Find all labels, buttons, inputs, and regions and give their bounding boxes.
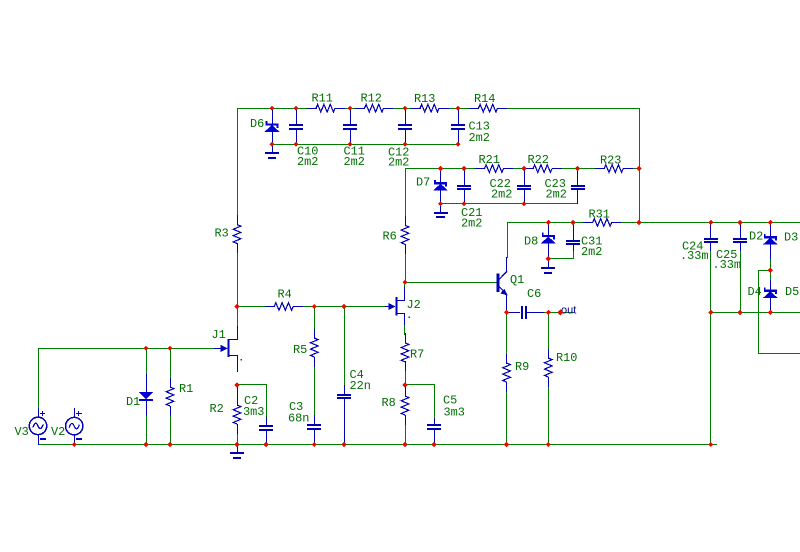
junction: [546, 310, 551, 315]
junction: [143, 442, 148, 447]
svg-text:C6: C6: [527, 287, 541, 301]
svg-text:R5: R5: [293, 343, 307, 357]
ground: [237, 444, 238, 453]
svg-text:D1: D1: [126, 395, 140, 409]
wire: [405, 282, 497, 283]
junction: [570, 220, 575, 225]
svg-text:D7: D7: [416, 176, 430, 190]
resistor R4: [265, 306, 275, 307]
junction: [269, 106, 274, 111]
svg-text:R2: R2: [210, 402, 224, 416]
wire: [507, 222, 508, 258]
wire: [38, 444, 717, 445]
junction: [143, 346, 148, 351]
capacitor C11: [350, 108, 351, 125]
wire: [758, 270, 759, 354]
junction: [402, 442, 407, 447]
junction: [269, 142, 274, 147]
junction: [636, 166, 641, 171]
resistor R9: [506, 354, 507, 364]
junction: [546, 256, 551, 261]
voltage source V3: [29, 417, 46, 434]
junction: [402, 382, 407, 387]
capacitor C21: [464, 168, 465, 185]
diode D8 (zener): [548, 222, 549, 236]
resistor R7: [405, 333, 406, 343]
junction: [167, 442, 172, 447]
junction: [347, 106, 352, 111]
resistor R5: [314, 329, 315, 339]
transistor Q1 (NPN): [497, 274, 500, 293]
junction: [431, 442, 436, 447]
diode D2 (zener): [770, 222, 771, 237]
wire: [639, 108, 640, 223]
wire: [506, 391, 507, 445]
wire: [710, 250, 711, 445]
wire: [314, 432, 315, 445]
wire: [405, 384, 435, 385]
svg-text:R10: R10: [556, 351, 577, 365]
wire: [506, 303, 507, 354]
wire: [405, 168, 406, 226]
wire: [314, 306, 315, 329]
wire: [405, 168, 476, 169]
capacitor C3: [314, 415, 315, 425]
wire: [710, 312, 800, 313]
svg-text:2m2: 2m2: [491, 188, 512, 202]
wire: [543, 312, 574, 313]
resistor R12: [355, 108, 365, 109]
wire: [237, 108, 307, 109]
junction: [341, 304, 346, 309]
junction: [546, 442, 551, 447]
svg-text:2m2: 2m2: [297, 155, 318, 169]
junction: [546, 220, 551, 225]
junction: [737, 310, 742, 315]
svg-text:R4: R4: [278, 288, 292, 302]
junction: [504, 442, 509, 447]
wire: [237, 431, 238, 445]
junction: [461, 201, 466, 206]
junction: [521, 201, 526, 206]
junction: [402, 106, 407, 111]
resistor R31: [583, 222, 593, 223]
resistor R22: [524, 168, 534, 169]
junction: [708, 310, 713, 315]
wire: [758, 353, 800, 354]
capacitor C4: [344, 385, 345, 394]
resistor R23: [595, 168, 605, 169]
junction: [234, 304, 239, 309]
wire: [573, 250, 574, 259]
resistor R6: [405, 216, 406, 226]
svg-text:.33m: .33m: [713, 258, 742, 272]
svg-text:Q1: Q1: [510, 273, 524, 287]
wire: [237, 384, 238, 389]
junction: [737, 220, 742, 225]
wire: [405, 424, 406, 445]
diode D1: [146, 374, 147, 393]
junction: [708, 442, 713, 447]
wire: [740, 250, 741, 313]
junction: [768, 268, 773, 273]
wire: [404, 282, 405, 289]
wire: [548, 386, 549, 445]
wire: [344, 306, 345, 387]
svg-text:D6: D6: [250, 117, 264, 131]
junction: [402, 280, 407, 285]
capacitor C22: [524, 168, 525, 185]
junction: [263, 442, 268, 447]
junction: [708, 220, 713, 225]
wire: [170, 415, 171, 445]
svg-text:R21: R21: [479, 153, 500, 167]
wire: [272, 144, 459, 145]
junction: [768, 310, 773, 315]
svg-text:2m2: 2m2: [546, 188, 567, 202]
svg-text:D3: D3: [784, 231, 798, 245]
wire: [434, 384, 435, 420]
junction: [636, 220, 641, 225]
resistor R10: [548, 349, 549, 359]
node out dot: [557, 309, 563, 315]
wire: [770, 258, 771, 281]
junction: [293, 142, 298, 147]
junction: [312, 304, 317, 309]
capacitor C2: [266, 417, 267, 426]
svg-text:J1: J1: [212, 328, 226, 342]
resistor R13: [411, 108, 421, 109]
wire: [38, 348, 215, 349]
resistor R3: [237, 215, 238, 225]
svg-text:2m2: 2m2: [388, 156, 409, 170]
junction: [402, 142, 407, 147]
junction: [455, 106, 460, 111]
diode D4 (zener): [770, 280, 771, 290]
capacitor C24: [710, 222, 711, 238]
capacitor C23: [577, 168, 578, 185]
ground: [440, 203, 441, 212]
junction: [504, 310, 509, 315]
wire: [405, 371, 406, 385]
svg-text:R22: R22: [528, 153, 549, 167]
wire: [146, 348, 147, 375]
svg-text:R12: R12: [361, 92, 382, 106]
svg-text:R7: R7: [410, 348, 424, 362]
resistor R8: [405, 387, 406, 397]
junction: [461, 166, 466, 171]
svg-text:D5: D5: [785, 285, 799, 299]
diode D6 (zener): [272, 108, 273, 124]
svg-text:R1: R1: [179, 382, 193, 396]
ground: [272, 144, 273, 153]
diode D7 (zener): [440, 168, 441, 183]
junction: [347, 142, 352, 147]
svg-text:3m3: 3m3: [444, 406, 465, 420]
resistor R11: [307, 108, 317, 109]
svg-text:D2: D2: [749, 230, 763, 244]
JFET J1: [228, 339, 230, 357]
voltage source V2: [66, 417, 83, 434]
wire: [38, 348, 39, 409]
svg-text:.33m: .33m: [680, 249, 709, 263]
wire: [146, 415, 147, 445]
capacitor C25: [740, 222, 741, 238]
wire: [758, 270, 771, 271]
svg-text:3m3: 3m3: [243, 405, 264, 419]
svg-text:V3: V3: [15, 425, 29, 439]
wire: [440, 203, 578, 204]
wire: [507, 222, 584, 223]
svg-text:22n: 22n: [350, 379, 371, 393]
svg-text:68n: 68n: [288, 412, 309, 426]
resistor R21: [475, 168, 485, 169]
capacitor C13: [458, 108, 459, 125]
junction: [521, 166, 526, 171]
wire: [548, 258, 574, 259]
capacitor C12: [405, 108, 406, 125]
svg-text:R6: R6: [383, 230, 397, 244]
wire: [237, 108, 238, 225]
svg-text:V2: V2: [51, 425, 65, 439]
wire: [237, 384, 267, 385]
svg-text:2m2: 2m2: [344, 155, 365, 169]
resistor R2: [237, 396, 238, 406]
svg-text:R13: R13: [414, 92, 435, 106]
wire: [404, 324, 405, 335]
junction: [234, 382, 239, 387]
wire: [237, 306, 265, 307]
junction: [72, 442, 77, 447]
svg-text:R3: R3: [215, 227, 229, 241]
junction: [234, 442, 239, 447]
wire: [548, 312, 549, 349]
junction: [293, 106, 298, 111]
svg-text:2m2: 2m2: [469, 131, 490, 145]
JFET J2: [396, 297, 398, 316]
svg-text:R8: R8: [382, 396, 396, 410]
svg-text:R31: R31: [589, 208, 610, 222]
junction: [438, 166, 443, 171]
junction: [768, 220, 773, 225]
svg-text:2m2: 2m2: [581, 245, 602, 259]
svg-text:2m2: 2m2: [461, 217, 482, 231]
wire: [170, 348, 171, 378]
capacitor C31: [573, 222, 574, 240]
svg-text:D8: D8: [524, 235, 538, 249]
capacitor C5: [434, 418, 435, 425]
capacitor C10: [296, 108, 297, 125]
resistor R14: [469, 108, 479, 109]
wire: [266, 384, 267, 419]
junction: [341, 442, 346, 447]
svg-text:D4: D4: [748, 285, 762, 299]
junction: [312, 442, 317, 447]
svg-text:J2: J2: [407, 298, 421, 312]
svg-text:R23: R23: [600, 154, 621, 168]
ground: [548, 258, 549, 268]
junction: [167, 346, 172, 351]
svg-text:R9: R9: [515, 360, 529, 374]
svg-text:R14: R14: [474, 92, 495, 106]
junction: [455, 142, 460, 147]
capacitor C6: [506, 312, 520, 313]
junction: [438, 201, 443, 206]
svg-text:R11: R11: [312, 92, 333, 106]
svg-text:out: out: [561, 305, 576, 317]
junction: [575, 166, 580, 171]
resistor R1: [170, 378, 171, 388]
